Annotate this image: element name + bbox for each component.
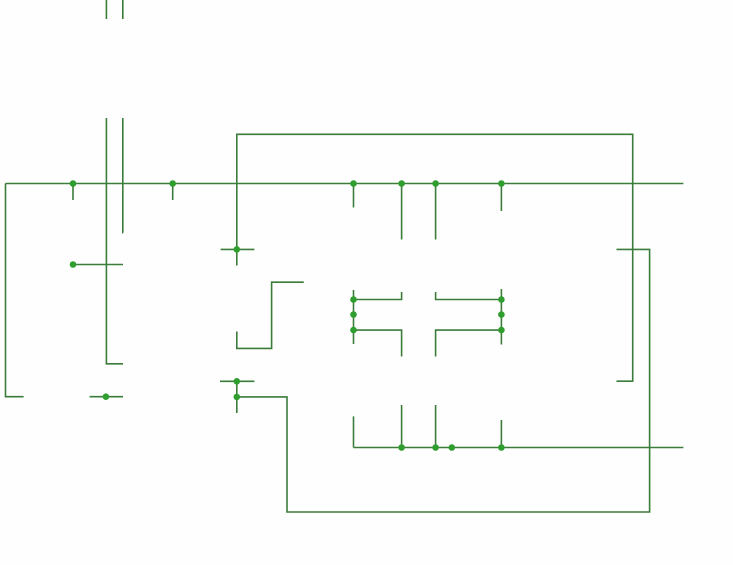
wire: rail to Q11 collector bbox=[500, 184, 502, 212]
wire: rail to D12 cathode bbox=[401, 184, 403, 240]
wire: right motor column bbox=[500, 300, 502, 331]
junction: left column at D12 link bbox=[350, 296, 357, 303]
wire: node A down to R74 bbox=[236, 249, 238, 265]
wire: Q9 emitter to left column bbox=[353, 290, 355, 300]
junction: rail at R76 bbox=[70, 180, 77, 187]
wire: Q10 emitter down to bottom rail bbox=[353, 416, 355, 447]
wire: Q12 emitter down to bottom rail bbox=[500, 420, 502, 448]
wire: R76/R78 node to IC7A pin2 bbox=[73, 264, 123, 266]
junction: bottom rail at Q12 emitter bbox=[498, 444, 505, 451]
wire: S24 pin2 to IC7A pin3 bbox=[122, 118, 124, 233]
wire: node A up and across to R72 (right leg of loop) bbox=[237, 134, 633, 381]
junction: rail at D12 bbox=[398, 180, 405, 187]
wire: D12 anode to left column bbox=[354, 292, 402, 300]
wire: left column to D14 cathode bbox=[354, 330, 402, 356]
wire: right column to Q12 collector bbox=[500, 330, 502, 344]
wire: R75 to R77/IC7B pin6 node bbox=[90, 396, 123, 398]
junction: bottom rail at D15 bbox=[432, 444, 439, 451]
junction: rail at IC7A pin8 bbox=[169, 180, 176, 187]
junction: node B loop takeoff bbox=[234, 394, 241, 401]
wire: rail to IC7A pin8 bbox=[172, 184, 174, 201]
junction: IC7B output node B bbox=[234, 378, 241, 385]
wire: left motor column bbox=[353, 300, 355, 331]
wire: node B loop to R71 (bottom loop) bbox=[237, 249, 650, 512]
junction: right column at D13 link bbox=[498, 296, 505, 303]
junction: rail at Q11 collector bbox=[498, 180, 505, 187]
wire: right column to D15 cathode bbox=[436, 330, 502, 356]
junction: right column at X6-2 bbox=[498, 311, 505, 318]
junction: left column at D14 link bbox=[350, 327, 357, 334]
wire: R74 bottom to AVANTI LED anode bbox=[237, 282, 304, 348]
junction: rail at Q9 collector bbox=[350, 180, 357, 187]
wire: left column to Q10 collector bbox=[353, 330, 355, 344]
wire: node B down to R73 bbox=[236, 381, 238, 413]
wire: rail to R76 top bbox=[72, 184, 74, 201]
junction: R76/R78/IC7A pin2 node bbox=[70, 261, 77, 268]
wire: IC7B output node B horizontal bbox=[220, 380, 254, 382]
wire: D14 anode to bottom rail bbox=[401, 405, 403, 448]
wire: S24 pin1 to IC7B pin5 bbox=[106, 118, 123, 364]
wire: rail to Q9 collector bbox=[353, 184, 355, 208]
junction: IC7A output node A bbox=[234, 246, 241, 253]
wire: D13 anode to right column bbox=[436, 292, 502, 300]
junction: right column at D15 link bbox=[498, 327, 505, 334]
junction: bottom rail at D14 bbox=[398, 444, 405, 451]
wire: bottom ground rail net X7-2 bbox=[354, 447, 684, 449]
wire: IC7A output node A horizontal bbox=[221, 248, 255, 250]
junction: rail at D13 bbox=[432, 180, 439, 187]
wire: D15 anode to bottom rail bbox=[435, 405, 437, 448]
wire: left feedback drop from rail to R75 bbox=[6, 184, 24, 397]
wire: S24 pin4 stub to top edge bbox=[105, 0, 107, 19]
wire: top supply rail net X7-1 bbox=[6, 183, 684, 185]
wire: S24 pin3 stub to top edge bbox=[122, 0, 124, 19]
junction: bottom rail at 0V ground bbox=[449, 444, 456, 451]
wire: Q11 emitter to right column bbox=[500, 289, 502, 300]
wire: rail to D13 cathode bbox=[435, 184, 437, 240]
junction: R75/R77/IC7B pin6 node bbox=[103, 393, 110, 400]
junction: left column at X6-1 bbox=[350, 311, 357, 318]
